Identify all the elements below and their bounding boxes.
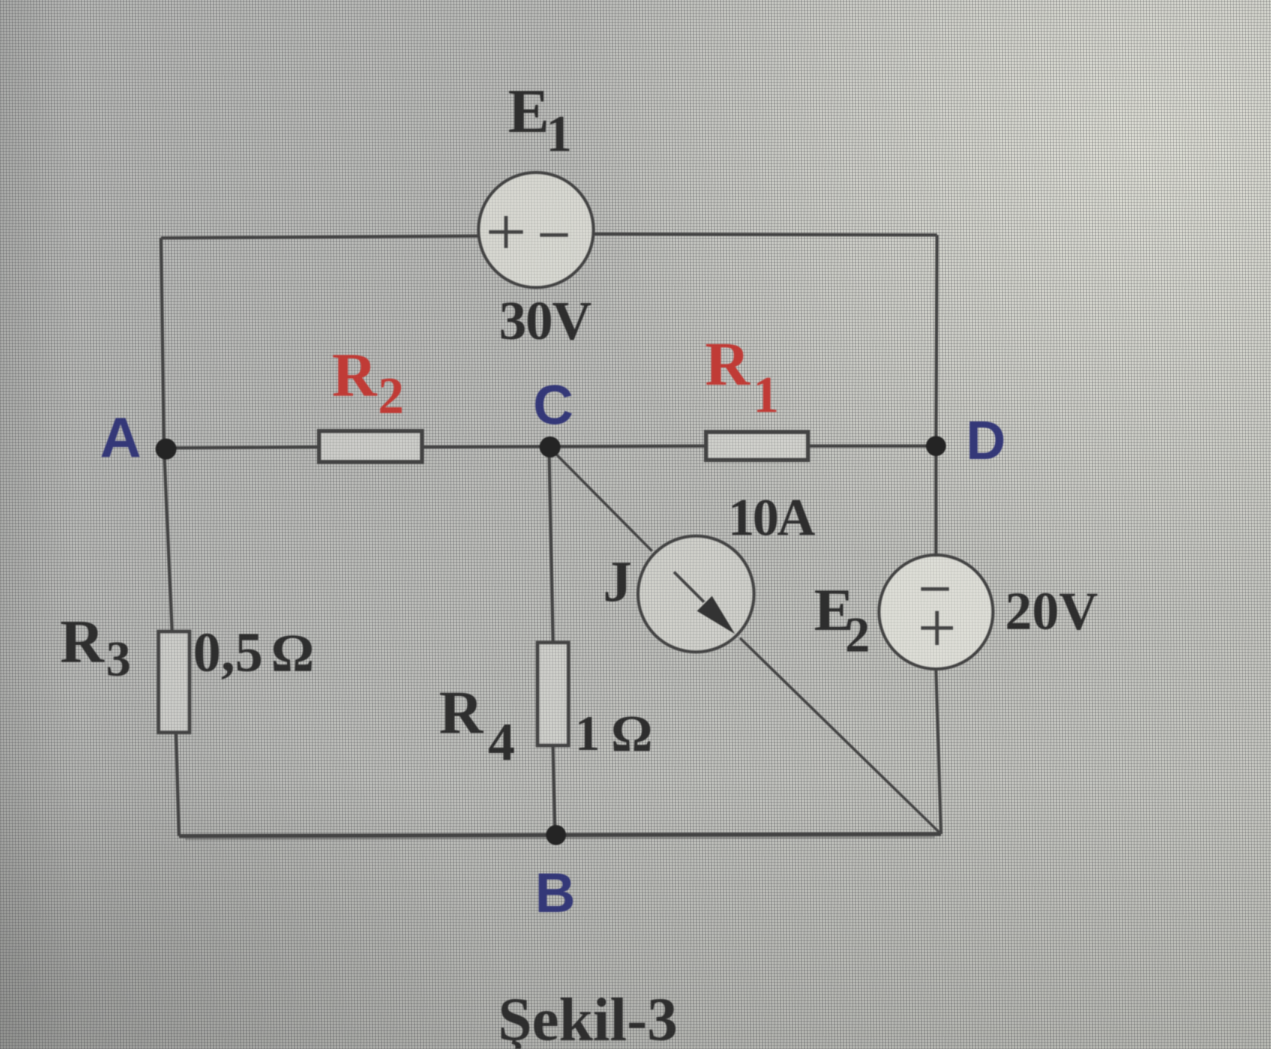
svg-text:2: 2 <box>378 368 404 425</box>
svg-text:Ω: Ω <box>271 623 314 683</box>
svg-text:1: 1 <box>546 106 572 163</box>
svg-text:C: C <box>533 373 573 436</box>
svg-text:20V: 20V <box>1005 581 1098 641</box>
svg-text:D: D <box>966 409 1006 471</box>
svg-text:Ω: Ω <box>611 706 653 763</box>
svg-text:0,5: 0,5 <box>193 622 263 684</box>
svg-text:Şekil-3: Şekil-3 <box>498 987 678 1049</box>
svg-text:A: A <box>100 406 141 470</box>
svg-text:30V: 30V <box>499 290 592 351</box>
svg-text:E: E <box>508 78 549 146</box>
svg-text:R: R <box>705 331 751 399</box>
svg-text:J: J <box>603 549 632 614</box>
svg-text:4: 4 <box>488 712 515 772</box>
svg-text:R: R <box>439 680 484 747</box>
svg-text:R: R <box>332 342 378 410</box>
svg-text:2: 2 <box>845 606 870 662</box>
svg-text:1: 1 <box>575 705 600 761</box>
svg-text:10A: 10A <box>728 489 815 547</box>
svg-text:3: 3 <box>106 630 131 686</box>
svg-text:B: B <box>535 861 575 924</box>
svg-text:1: 1 <box>753 367 779 424</box>
svg-text:R: R <box>60 609 105 676</box>
